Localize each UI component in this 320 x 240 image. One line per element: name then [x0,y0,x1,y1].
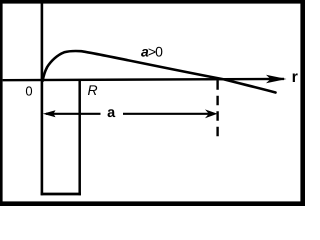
svg-text:r: r [292,69,298,86]
svg-text:0: 0 [25,84,32,99]
svg-text:a: a [107,105,116,121]
svg-text:a>0: a>0 [141,44,163,60]
svg-text:R: R [88,82,98,98]
